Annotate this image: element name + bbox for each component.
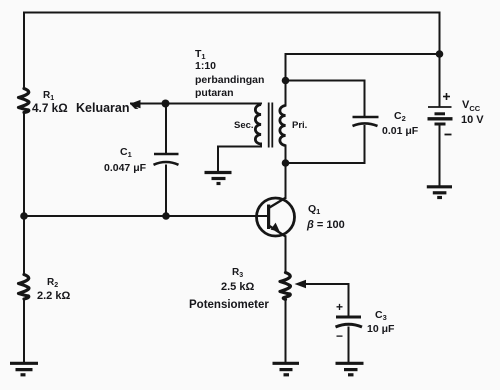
wire R2 to ground (23, 299, 25, 362)
svg-text:0.01 μF: 0.01 μF (382, 125, 419, 137)
wire battery to ground (439, 125, 441, 185)
transistor Q1 (257, 198, 295, 237)
transformer T1 primary winding (280, 106, 286, 146)
ground (Vcc) (427, 187, 452, 198)
potentiometer wiper arrow (295, 280, 307, 288)
transformer T1 secondary winding (255, 105, 261, 145)
svg-text:−: − (336, 329, 343, 343)
node: C2 bottom junction (282, 159, 290, 167)
svg-text:+: + (336, 300, 343, 314)
battery Vcc (428, 107, 453, 124)
svg-text:β = 100: β = 100 (306, 219, 345, 231)
node: C1 tap junction (162, 100, 170, 108)
svg-text:Pri.: Pri. (292, 120, 307, 131)
wire wiper to C3 (304, 284, 349, 316)
svg-text:perbandingan: perbandingan (195, 74, 264, 86)
svg-text:putaran: putaran (195, 87, 234, 99)
wire C2 top (286, 81, 365, 116)
svg-text:10 V: 10 V (461, 114, 484, 126)
wire primary top (285, 54, 287, 106)
wire secondary bottom (218, 144, 261, 172)
transformer core (269, 103, 273, 148)
svg-text:2.2 kΩ: 2.2 kΩ (37, 290, 70, 302)
transistor emitter arrow (271, 223, 280, 232)
svg-text:10 μF: 10 μF (367, 323, 395, 335)
svg-text:Potensiometer: Potensiometer (189, 299, 269, 311)
svg-text:Sec.: Sec. (234, 120, 254, 131)
ground (secondary) (205, 173, 232, 184)
wire top rail (24, 12, 440, 14)
wire left rail lower (23, 216, 25, 275)
capacitor C3 (336, 317, 363, 327)
resistor R1 (19, 89, 29, 113)
node: base-left rail junction (20, 212, 28, 220)
wire base (24, 215, 268, 217)
svg-text:0.047 μF: 0.047 μF (104, 162, 147, 174)
wire pot to ground (285, 300, 287, 363)
ground (R2) (10, 363, 38, 375)
wire emitter (285, 237, 287, 273)
wire output / secondary top (131, 103, 261, 105)
wire C1 bottom (165, 166, 167, 217)
wire Vcc feed (286, 53, 440, 55)
wire right rail (439, 13, 441, 107)
resistor R2 (19, 275, 29, 300)
wire C1 top (165, 104, 167, 153)
capacitor C2 (353, 117, 379, 126)
battery plus (443, 93, 450, 100)
svg-text:Keluaran: Keluaran (76, 101, 130, 115)
svg-text:1:10: 1:10 (195, 60, 216, 72)
node: C2 top junction (282, 77, 290, 85)
node: Vcc feed junction (436, 50, 444, 58)
wire primary bottom to collector (285, 146, 287, 199)
svg-text:2.5 kΩ: 2.5 kΩ (221, 281, 254, 293)
output arrow (Keluaran) (130, 100, 141, 109)
wire C3 to ground (348, 328, 350, 363)
ground (C3) (336, 363, 364, 375)
wire left rail mid (23, 113, 25, 217)
ground (potentiometer) (273, 363, 300, 375)
wire C2 bottom (286, 126, 365, 163)
battery minus (445, 134, 452, 136)
wire left rail upper (23, 13, 25, 89)
svg-text:4.7 kΩ: 4.7 kΩ (32, 101, 68, 115)
capacitor C1 (154, 154, 179, 165)
node: C1 bottom junction (162, 212, 170, 220)
potentiometer R3 (280, 273, 290, 300)
